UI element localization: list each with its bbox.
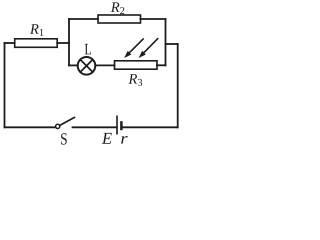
wire junction vertical right: [165, 19, 167, 65]
light arrow 1 head: [124, 51, 131, 58]
wire left vertical: [4, 43, 6, 127]
switch S blade: [60, 117, 75, 125]
wire bottom right segment: [122, 126, 178, 128]
resistor R2: [98, 15, 141, 23]
wire junction vertical left: [68, 19, 70, 65]
label S: [61, 133, 67, 144]
label R1: [30, 24, 44, 36]
label R3: [128, 74, 142, 86]
photoresistor R3: [115, 61, 158, 69]
lamp L circle: [78, 57, 96, 75]
label r: [121, 136, 127, 144]
light arrow 2 head: [139, 51, 146, 58]
battery short plate: [120, 121, 123, 130]
resistor R1: [15, 39, 58, 48]
light arrow 2 shaft: [143, 38, 158, 54]
label L: [85, 44, 91, 54]
wire right vertical: [177, 44, 179, 127]
wire R3 right lead: [157, 64, 166, 66]
battery long plate: [116, 116, 118, 135]
wire top left segment: [69, 18, 98, 20]
label R2: [111, 2, 125, 14]
wire tap horizontal: [166, 43, 178, 45]
wire R1 right lead: [57, 42, 69, 44]
switch S pivot: [56, 124, 60, 128]
wire bottom mid segment: [73, 126, 117, 128]
lamp L cross: [80, 60, 92, 72]
wire R1 left lead: [5, 42, 15, 44]
wire bottom left segment: [5, 126, 56, 128]
wire lamp left lead: [69, 64, 78, 66]
light arrow 1 shaft: [128, 38, 143, 53]
wire top right segment: [141, 18, 166, 20]
wire lamp right lead: [96, 64, 115, 66]
label E: [102, 133, 112, 144]
